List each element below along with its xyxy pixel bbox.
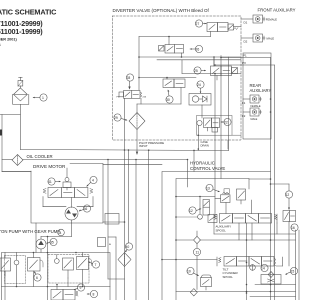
spool section right: [283, 211, 296, 222]
bleed valve 30: [163, 78, 185, 105]
gauge port left: [14, 256, 19, 265]
callout 1: [33, 94, 48, 101]
wire PV line: [215, 61, 275, 65]
svg-text:REAR: REAR: [250, 83, 262, 88]
callout 25: [194, 67, 206, 74]
case drain port box: [197, 116, 242, 148]
callout 8: [87, 290, 98, 297]
wire right bus: [271, 58, 275, 300]
svg-text:30: 30: [166, 98, 170, 102]
callout 13: [206, 184, 220, 192]
svg-text:CASE: CASE: [201, 140, 209, 144]
pump section box left: [5, 256, 26, 284]
solenoid valve 27: [207, 23, 241, 37]
callout 16 top right: [291, 224, 298, 231]
drain diamond bottom: [190, 289, 197, 296]
tilt cylinder spool valve: [217, 257, 283, 267]
svg-text:CONTROL VALVE: CONTROL VALVE: [190, 166, 225, 171]
svg-text:P1: P1: [243, 53, 247, 57]
svg-text:14: 14: [261, 267, 265, 271]
diverter valve dashed enclosure: [113, 16, 242, 140]
relief valve pump left edge: [0, 258, 11, 276]
svg-text:10: 10: [187, 270, 191, 274]
svg-text:D1: D1: [244, 21, 248, 25]
filter 1 reservoir: [13, 77, 29, 104]
callout 36: [79, 205, 91, 212]
wire D2 to male coupler: [241, 38, 253, 44]
coupler front female: [253, 15, 277, 23]
relief valve mid: [63, 258, 74, 278]
relief valve left: [237, 189, 246, 204]
callout 4: [86, 176, 97, 186]
rear auxiliary enclosure: [243, 53, 271, 139]
auxiliary spool valve: [214, 214, 277, 224]
wire center bus: [2, 56, 296, 300]
aux spool inlet: [198, 214, 217, 222]
callout 7: [88, 261, 100, 268]
flow control box: [261, 272, 281, 285]
callout 14: [261, 264, 268, 271]
piston pump label: [0, 229, 60, 234]
callout 28: [126, 74, 133, 90]
wire diverter internals: [137, 37, 241, 151]
callout 30: [166, 90, 173, 104]
svg-text:HYDRAULIC: HYDRAULIC: [190, 160, 215, 165]
callout 24: [197, 81, 204, 94]
spool section 12: [200, 197, 209, 215]
tilt spool label: [223, 267, 239, 279]
svg-text:11: 11: [196, 251, 200, 255]
callout 8: [74, 284, 85, 291]
callout 29: [114, 114, 128, 121]
diverter spool valve 28: [117, 91, 147, 300]
svg-text:22: 22: [224, 121, 228, 125]
svg-text:12: 12: [286, 193, 290, 197]
pilot pressure input label: [139, 141, 164, 148]
svg-text:SPOOL: SPOOL: [223, 275, 234, 279]
relief valve 7: [77, 253, 92, 287]
svg-text:6: 6: [36, 276, 38, 280]
svg-text:27: 27: [196, 22, 200, 26]
svg-text:34: 34: [58, 231, 62, 235]
svg-text:OIL COOLER: OIL COOLER: [27, 154, 53, 159]
callout 41: [48, 178, 61, 185]
check valve circle: [250, 265, 256, 271]
svg-text:16: 16: [291, 226, 295, 230]
svg-text:BER 2001): BER 2001): [0, 37, 18, 41]
wire cv bottom: [176, 284, 296, 297]
junction dots top: [138, 36, 271, 113]
wire P1 line: [221, 53, 271, 57]
svg-text:40: 40: [126, 245, 130, 249]
callout 22: [221, 118, 232, 125]
junction dots bottom: [56, 149, 271, 294]
callout 12: [189, 207, 202, 214]
svg-text:35: 35: [50, 241, 54, 245]
svg-text:12: 12: [189, 209, 193, 213]
title HYDRAULIC SCHEMATIC: [0, 8, 57, 47]
drive motor enclosure: [31, 164, 103, 224]
rear auxiliary label: [250, 83, 272, 93]
svg-text:PV: PV: [242, 61, 246, 65]
pressure reducing valve 10: [201, 275, 212, 290]
svg-text:36: 36: [84, 207, 88, 211]
pump bottom valve row: [51, 285, 78, 300]
pump enclosure: [2, 253, 111, 300]
callout 6: [34, 271, 41, 281]
svg-text:F2: F2: [242, 114, 246, 118]
drive motor spool valve: [43, 188, 93, 208]
wire cv mid: [161, 196, 295, 300]
gauge port mid: [54, 255, 59, 264]
callout 35: [46, 238, 57, 245]
wire oil cooler line: [2, 160, 188, 172]
diverter valve section label: [113, 8, 210, 13]
coupler rear male F2: [242, 108, 262, 121]
solenoid valve 25: [211, 58, 238, 80]
svg-text:(511001-19999): (511001-19999): [0, 27, 43, 36]
svg-text:4: 4: [92, 179, 94, 183]
callout 40: [125, 243, 133, 252]
filter 40: [118, 253, 131, 267]
callout 26: [190, 45, 203, 52]
relief valve 13: [215, 189, 230, 203]
callout 12 right: [285, 191, 292, 210]
svg-text:MALE: MALE: [267, 36, 275, 40]
svg-text:FEMALE: FEMALE: [251, 105, 261, 108]
svg-text:ATIC SCHEMATIC: ATIC SCHEMATIC: [0, 8, 57, 17]
svg-text:D2: D2: [244, 40, 248, 44]
svg-text:13: 13: [206, 187, 210, 191]
charge pump: [36, 223, 72, 253]
svg-text:7: 7: [95, 263, 97, 267]
wire filter to oil cooler: [0, 104, 20, 171]
svg-text:24: 24: [197, 83, 201, 87]
svg-text:TON PUMP WITH GEAR PUMP: TON PUMP WITH GEAR PUMP: [0, 229, 60, 234]
auxiliary spool label: [216, 225, 232, 233]
callout 27: [195, 20, 206, 27]
svg-text:41: 41: [48, 180, 52, 184]
wire D1 to female coupler: [241, 19, 253, 25]
svg-text:1: 1: [42, 96, 44, 100]
svg-text:F1: F1: [242, 101, 246, 105]
svg-text:FEMALE: FEMALE: [266, 17, 277, 21]
svg-text:AUXILIARY: AUXILIARY: [250, 88, 272, 93]
pilot check valve 24: [189, 94, 211, 106]
svg-text:DRAIN: DRAIN: [201, 144, 209, 148]
callout 15: [285, 267, 298, 274]
svg-text:25: 25: [194, 69, 198, 73]
svg-text:INPUT: INPUT: [139, 144, 148, 148]
hydraulic control valve label: [190, 160, 225, 171]
pump section box mid: [48, 255, 89, 284]
callout 10: [187, 267, 199, 276]
front auxiliary label: [258, 8, 296, 13]
svg-text:MALE: MALE: [251, 118, 258, 121]
hydrostatic motor: [65, 207, 78, 223]
coupler rear female F1: [242, 95, 262, 108]
callout 11: [193, 248, 200, 255]
coupler front male: [253, 34, 274, 42]
hydraulic control valve enclosure: [162, 172, 271, 300]
relief valve 6: [28, 253, 44, 277]
svg-text:28: 28: [127, 76, 131, 80]
svg-text:15: 15: [291, 270, 295, 274]
svg-text:26: 26: [196, 48, 200, 52]
solenoid valve 26: [159, 37, 184, 58]
svg-text:29: 29: [114, 116, 118, 120]
wire pump internals: [2, 237, 111, 300]
svg-text:SPOOL: SPOOL: [216, 228, 227, 232]
filter 29: [129, 104, 145, 155]
svg-text:8: 8: [93, 293, 95, 297]
solenoid valve 22: [197, 118, 220, 150]
callout 34: [58, 229, 65, 236]
component under gear pump line: [98, 238, 106, 247]
check diamond upper: [194, 236, 201, 289]
label a: [109, 242, 111, 246]
oil cooler: [12, 154, 53, 166]
svg-text:FRONT AUXILIARY: FRONT AUXILIARY: [258, 8, 296, 13]
svg-text:DIVERTER VALVE (OPTIONAL) WITH: DIVERTER VALVE (OPTIONAL) WITH Bleed Of: [113, 8, 210, 13]
svg-text:DRIVE MOTOR: DRIVE MOTOR: [33, 164, 66, 169]
scan artifact left edge: [0, 130, 2, 136]
wire cv top: [175, 179, 289, 266]
shuttle valve: [63, 168, 71, 190]
